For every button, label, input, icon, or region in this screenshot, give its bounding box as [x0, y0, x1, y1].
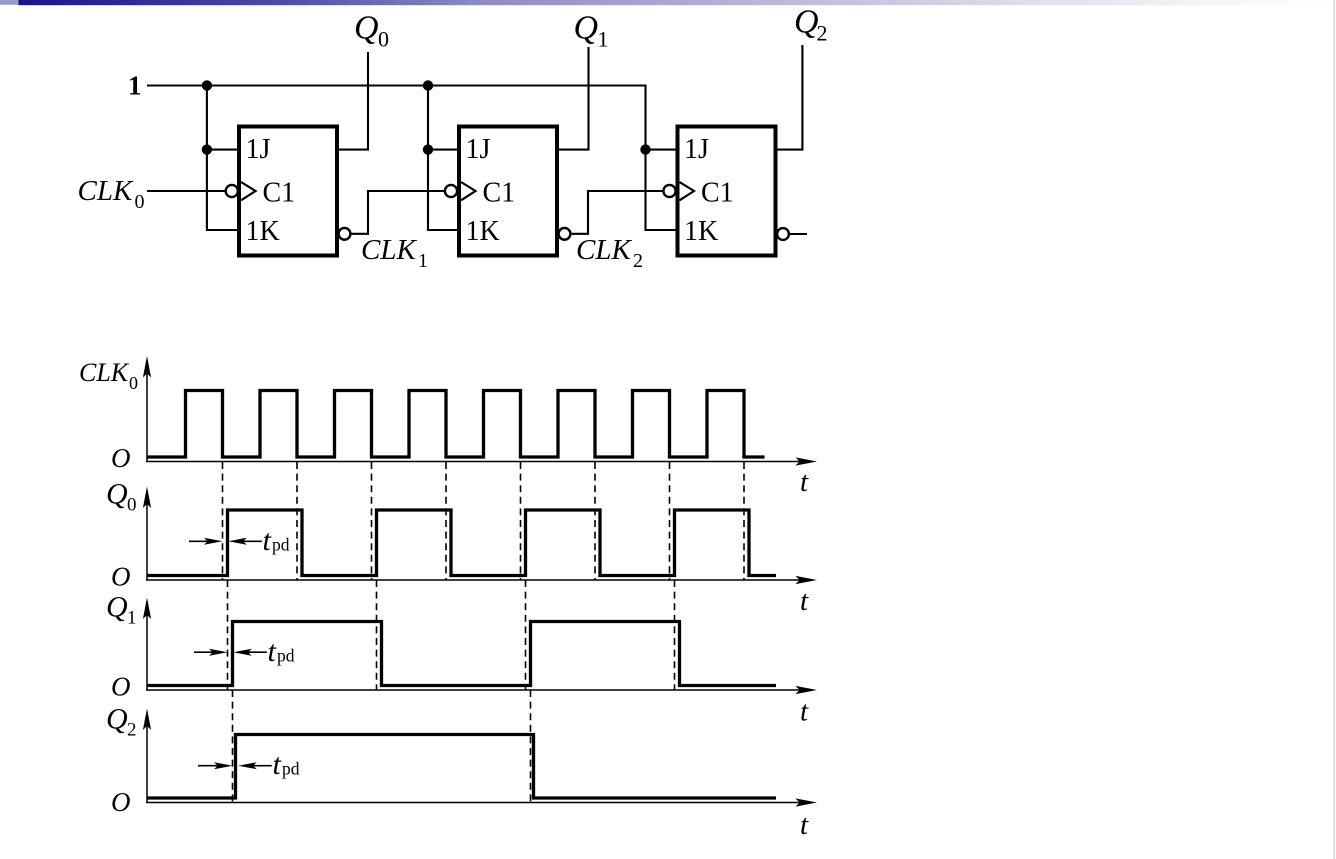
CLK0 waveform [147, 391, 765, 458]
svg-text:t: t [800, 466, 809, 498]
label Q1 [574, 10, 609, 52]
svg-text:CLK: CLK [78, 175, 134, 207]
label Q2 [794, 4, 828, 46]
svg-text:1J: 1J [466, 134, 491, 165]
dashed guides at Q0 rising edges [228, 580, 675, 690]
FF2 Q output wire to Q1 [557, 47, 589, 150]
FF3 Qbar stub wire [789, 233, 807, 235]
FF1 clock bubble [226, 185, 238, 197]
wire: J input FF2 [428, 149, 457, 151]
svg-text:C1: C1 [263, 178, 296, 209]
label Q0 [354, 10, 389, 52]
svg-text:1J: 1J [246, 134, 271, 165]
CLK0 row origin label O [111, 443, 131, 473]
svg-text:1K: 1K [684, 216, 718, 247]
svg-text:t: t [800, 585, 809, 617]
svg-text:1: 1 [598, 27, 609, 52]
junction dot rail-bus1 [202, 80, 212, 90]
flip-flop FF3 box [678, 127, 776, 256]
FF3 label C1 [701, 178, 734, 209]
Q1 row axis label [106, 591, 137, 629]
right page edge line [1334, 0, 1335, 859]
svg-text:t: t [800, 809, 809, 841]
FF3 label 1K [684, 216, 718, 247]
svg-text:0: 0 [129, 373, 138, 393]
wire CLK1: FF1 Qbar to FF2 clock [350, 191, 445, 234]
svg-text:1K: 1K [246, 216, 280, 247]
junction dot J3 [640, 144, 650, 154]
FF2 Qbar bubble [559, 228, 571, 240]
FF1 Qbar bubble [339, 228, 351, 240]
FF3 label 1J [684, 134, 709, 165]
junction dot rail-bus2 [423, 80, 433, 90]
svg-text:1K: 1K [466, 216, 500, 247]
FF3 Qbar bubble [777, 228, 789, 240]
svg-text:t: t [800, 696, 809, 728]
svg-text:pd: pd [277, 646, 295, 666]
wire: J input FF1 [207, 149, 237, 151]
FF1 label C1 [263, 178, 296, 209]
FF3 clock triangle [680, 182, 695, 200]
Q2 row axis label [106, 703, 137, 741]
FF1 label 1K [246, 216, 280, 247]
dashed guides at CLK0 falling edges [223, 462, 745, 580]
svg-text:O: O [111, 562, 131, 592]
CLK0 row axis label CLK0 [79, 358, 138, 393]
wire CLK2: FF2 Qbar to FF3 clock [570, 191, 664, 234]
FF2 label 1J [466, 134, 491, 165]
Q0 row y-axis [146, 502, 148, 580]
svg-text:2: 2 [633, 250, 643, 272]
svg-text:Q: Q [354, 10, 379, 47]
svg-text:C1: C1 [483, 178, 516, 209]
Q1 row x-axis [146, 689, 800, 691]
Q1 row origin label O [111, 672, 131, 702]
svg-text:1: 1 [418, 250, 428, 272]
svg-text:0: 0 [378, 27, 389, 52]
Q2 row x-axis [146, 802, 800, 804]
Q1 row t label [800, 696, 809, 728]
Q0 row x-axis [146, 579, 800, 581]
Q1 waveform [147, 622, 776, 686]
wire: CLK0 input [147, 190, 226, 192]
Q2 row origin label O [111, 787, 131, 817]
svg-text:Q: Q [106, 591, 128, 624]
label CLK0 input [78, 175, 145, 213]
wire: logic-1 rail [147, 86, 646, 150]
junction dot J1 [202, 144, 212, 154]
flip-flop FF2 box [459, 127, 557, 256]
svg-text:O: O [111, 443, 131, 473]
svg-text:2: 2 [127, 720, 137, 741]
svg-text:Q: Q [794, 4, 819, 41]
svg-text:1: 1 [127, 608, 137, 629]
FF3 Q output wire to Q2 [776, 45, 803, 150]
svg-text:1J: 1J [684, 134, 709, 165]
FF1 Q output wire to Q0 [337, 52, 368, 150]
svg-text:C1: C1 [701, 178, 734, 209]
svg-text:0: 0 [135, 191, 145, 213]
Q0 waveform [147, 510, 776, 576]
Q0 row t label [800, 585, 809, 617]
Q0 row axis label [106, 478, 137, 516]
svg-text:CLK: CLK [361, 234, 417, 266]
svg-text:CLK: CLK [576, 234, 632, 266]
svg-text:pd: pd [272, 535, 290, 555]
net 1 label [128, 71, 142, 101]
wire: J/K bus of FF2 [428, 86, 457, 231]
FF3 clock bubble [663, 185, 675, 197]
svg-text:t: t [273, 748, 282, 781]
FF2 label 1K [466, 216, 500, 247]
svg-text:pd: pd [282, 759, 300, 779]
svg-text:CLK: CLK [79, 358, 130, 387]
junction dot J2 [423, 144, 433, 154]
FF2 label C1 [483, 178, 516, 209]
FF1 clock triangle [241, 182, 256, 200]
wire: J/K bus of FF1 [207, 86, 237, 231]
Q0 row origin label O [111, 562, 131, 592]
wire: J input FF3 [646, 149, 676, 151]
FF2 clock triangle [461, 182, 476, 200]
flip-flop FF1 box [239, 127, 337, 256]
Q2 waveform [147, 735, 776, 799]
dashed guides at Q1 rising edges [233, 690, 531, 803]
header accent square [0, 0, 19, 5]
header gradient bar [19, 0, 1336, 5]
label CLK1 [361, 234, 428, 272]
svg-text:0: 0 [127, 495, 137, 516]
svg-text:Q: Q [106, 478, 128, 511]
svg-text:O: O [111, 787, 131, 817]
svg-text:t: t [263, 524, 272, 557]
tpd annotation Q2 row [198, 748, 300, 781]
CLK0 row y-axis [146, 372, 148, 462]
svg-text:Q: Q [106, 703, 128, 736]
svg-text:O: O [111, 672, 131, 702]
svg-text:Q: Q [574, 10, 599, 47]
CLK0 row t label [800, 466, 809, 498]
Q2 row t label [800, 809, 809, 841]
tpd annotation Q0 row [189, 524, 290, 557]
Q1 row y-axis [146, 613, 148, 690]
svg-text:2: 2 [817, 21, 828, 46]
svg-text:1: 1 [128, 71, 142, 101]
label CLK2 [576, 234, 643, 272]
FF1 label 1J [246, 134, 271, 165]
Q2 row y-axis [146, 724, 148, 803]
FF2 clock bubble [445, 185, 457, 197]
CLK0 row x-axis [146, 461, 800, 463]
tpd annotation Q1 row [194, 635, 295, 668]
svg-text:t: t [268, 635, 277, 668]
wire: J/K bus of FF3 [646, 150, 676, 230]
